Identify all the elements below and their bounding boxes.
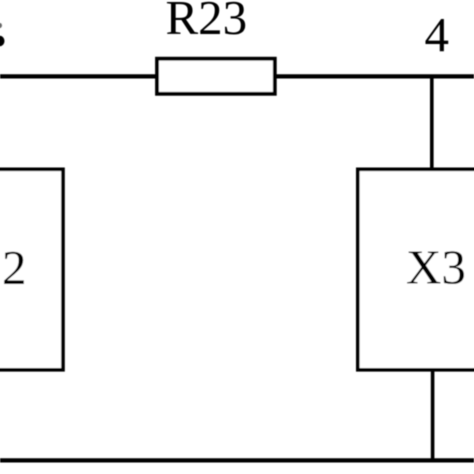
svg-text:R23: R23 <box>166 0 248 45</box>
svg-text:2: 2 <box>2 240 27 295</box>
component X3 <box>358 169 474 369</box>
wire node3 to R23 <box>0 74 158 78</box>
svg-text:X3: X3 <box>406 240 466 295</box>
resistor R23 <box>157 0 275 94</box>
svg-text:4: 4 <box>425 7 450 62</box>
wire X3 to bottom bus <box>431 369 435 460</box>
wire node 4 down to X3 <box>430 76 434 170</box>
wire R23 to node 4 and right edge <box>274 74 474 78</box>
node 3 <box>0 23 5 46</box>
wire bottom bus <box>0 458 474 462</box>
component X2 <box>0 169 63 369</box>
